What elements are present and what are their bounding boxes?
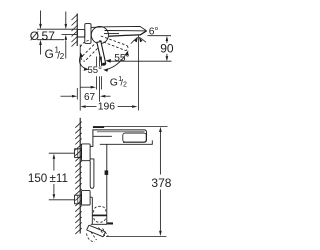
svg-text:2: 2	[60, 52, 65, 61]
svg-text:G: G	[110, 76, 118, 88]
dimension G1/2 (plan, left)	[65, 12, 67, 59]
svg-text:Ø 57: Ø 57	[30, 29, 55, 43]
holder nub	[105, 170, 109, 175]
lower connection centerline	[49, 199, 75, 201]
label G 1/2 (left)	[45, 46, 65, 62]
label G 1/2 (second)	[110, 76, 127, 88]
body flange lower (side)	[82, 190, 91, 205]
extension line bottom G1/2 nipple	[62, 34, 78, 36]
lever dashed position left	[81, 45, 98, 62]
dimension Ø57	[40, 11, 42, 55]
svg-text:67: 67	[84, 92, 96, 103]
cartridge dome (plan)	[91, 26, 108, 43]
lower union nut	[75, 195, 82, 204]
67 dimension (arrows outside)	[61, 95, 72, 97]
378 dimension	[159, 132, 161, 231]
angle arc right with arrowheads	[106, 53, 127, 70]
svg-text:G: G	[45, 47, 54, 61]
svg-text:150 ±11: 150 ±11	[28, 172, 68, 185]
150+-11 dimension	[53, 159, 55, 194]
svg-text:2: 2	[123, 81, 127, 88]
90 dimension	[148, 35, 172, 37]
spout bar (side view)	[90, 130, 146, 147]
wall hatching (side)	[75, 122, 81, 234]
spout bar chamfer line (side)	[97, 131, 145, 133]
handle inner rounded rect (side)	[123, 133, 146, 142]
dashed arc near dome	[81, 40, 90, 47]
extension line from lever tip down to 196 dim	[137, 35, 139, 110]
spout body outline (plan)	[91, 26, 147, 36]
extension line top (shared, Ø57/G half)	[37, 28, 77, 30]
svg-text:55°: 55°	[88, 65, 103, 76]
handle strip on top (side)	[93, 126, 104, 128]
svg-text:90: 90	[160, 42, 174, 56]
shower holder	[90, 197, 107, 224]
hand shower dashed in holder	[94, 206, 106, 222]
inner line under spout left	[93, 135, 112, 137]
holder bottom tick	[107, 222, 113, 224]
196 left extension line	[79, 45, 81, 111]
holder ring bold line	[92, 214, 107, 216]
extension line bottom Ø57	[37, 39, 64, 41]
svg-text:55°: 55°	[114, 53, 129, 64]
lever handle solid (plan)	[97, 41, 106, 65]
shower hose line	[106, 144, 108, 204]
wall hatching (plan)	[72, 14, 78, 47]
wall (side view)	[79, 118, 81, 234]
escutcheon / body rear (plan)	[85, 24, 91, 44]
378 top extension line	[104, 125, 167, 127]
body flange upper (side)	[82, 144, 91, 161]
G1/2 small dimension arrow	[80, 86, 91, 88]
196 dimension	[86, 106, 97, 108]
G1/2 nipple at wall (plan)	[77, 30, 84, 37]
spout underside lip	[100, 140, 153, 144]
spray head below holder	[87, 225, 106, 237]
378 bottom extension line	[106, 236, 167, 238]
angle arc left with arrowhead	[79, 55, 86, 70]
svg-text:196: 196	[98, 102, 116, 113]
svg-text:378: 378	[151, 176, 171, 190]
upper union nut	[75, 149, 82, 158]
arc arrowhead pair at lever-B tip	[131, 37, 138, 43]
outlet extension lines (G1/2 below spout)	[96, 57, 101, 102]
lever dashed position right	[99, 36, 128, 51]
wall extension line down (67 reference)	[76, 88, 78, 100]
upper connection centerline	[49, 152, 75, 154]
wall (plan view)	[76, 14, 78, 47]
body column	[90, 159, 94, 188]
